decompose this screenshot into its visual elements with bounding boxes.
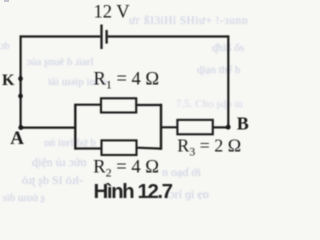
wire: R2 right lead (137, 147, 162, 150)
svg-text:R3 = 2 Ω: R3 = 2 Ω (177, 136, 241, 159)
svg-text:A: A (10, 128, 24, 149)
node A junction dot (18, 125, 23, 130)
svg-text:Hình 12.7: Hình 12.7 (94, 180, 173, 203)
switch K terminal dot lower (18, 94, 23, 99)
wire: R2 left lead (75, 147, 101, 149)
faint bleed-through text from reverse page (0, 15, 248, 204)
battery B1 long plate (100, 25, 102, 50)
battery B1 short plate (105, 30, 107, 44)
circuit drawing (21, 25, 229, 156)
svg-text:B: B (237, 114, 249, 134)
wire: R1 right lead (136, 104, 161, 106)
wire: top right segment (108, 35, 229, 37)
svg-text:n oạɗ ới: n oạɗ ới (162, 165, 202, 179)
resistor R3 box (177, 120, 212, 134)
svg-text:ɔủa ʂnuē ɓ ɹìarl: ɔủa ʂnuē ɓ ɹìarl (26, 56, 94, 68)
svg-text:ỉɔrí ɡì ẹɒ: ỉɔrí ɡì ẹɒ (166, 187, 209, 201)
wire: R1 left lead (75, 104, 101, 106)
stray mark top edge (4, 0, 9, 2)
wire: right vertical (227, 35, 229, 127)
node: parallel right bar (160, 104, 162, 150)
svg-text:ỏɹʈ ʂb SI ỏɹƚ-: ỏɹʈ ʂb SI ỏɹƚ- (22, 173, 83, 187)
node: parallel left bar (74, 104, 76, 150)
svg-text:ɔb: ɔb (0, 41, 9, 52)
svg-text:ưг ßI3iHí SHiư+ !-ɜunɒ: ưг ßI3iHí SHiư+ !-ɜunɒ (129, 15, 248, 27)
resistor R2 box (102, 140, 137, 155)
node B junction dot (226, 125, 231, 130)
paper background (0, 0, 251, 203)
wire: bottom from A to left bar (21, 126, 76, 128)
svg-text:ɒń iɒrl ɓứ b: ɒń iɒrl ɓứ b (44, 137, 96, 149)
switch K terminal dot upper (18, 76, 23, 81)
wire: top left segment (21, 35, 101, 37)
svg-text:R1 = 4 Ω: R1 = 4 Ω (94, 69, 160, 91)
svg-text:12 V: 12 V (94, 3, 131, 23)
svg-text:ɖiện ủɹ ɔửɑ: ɖiện ủɹ ɔửɑ (32, 155, 87, 169)
resistor R1 box (101, 98, 136, 112)
svg-text:7.5. Cho ʂɖo ɯ: 7.5. Cho ʂɖo ɯ (176, 98, 243, 110)
svg-text:ɖiạn thế h: ɖiạn thế h (197, 64, 241, 76)
wire: left vertical (20, 35, 22, 127)
svg-text:R2 = 4 Ω: R2 = 4 Ω (93, 157, 159, 179)
wire: R3 to node B (213, 126, 229, 128)
svg-text:ɜìɓ ɯɒά ʂ: ɜìɓ ɯɒά ʂ (2, 192, 45, 203)
wire: right bar to R3 (161, 126, 177, 128)
svg-text:K: K (2, 72, 15, 89)
